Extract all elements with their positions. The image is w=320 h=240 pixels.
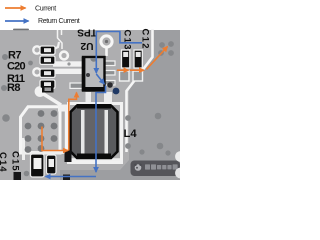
via ring B [60, 52, 68, 60]
via ring A [101, 36, 112, 47]
svg-text:C14: C14 [0, 152, 9, 173]
inductor L4 [69, 104, 122, 163]
svg-text:L4: L4 [124, 128, 138, 140]
pad bottom-left edge [14, 172, 22, 180]
PCB top edge shadow [13, 29, 29, 31]
via ring D [33, 68, 40, 75]
return path diagonal in U2 [96, 74, 104, 84]
legend background [0, 0, 180, 30]
svg-text:Return Current: Return Current [38, 18, 80, 25]
small part above island [42, 86, 54, 93]
svg-text:C13: C13 [123, 30, 134, 51]
resistor pads R8 [40, 80, 55, 88]
svg-text:C20: C20 [7, 61, 25, 73]
small part right of C15 [65, 151, 72, 163]
resistor pads R11 [40, 69, 55, 77]
white traces pads to U2 [53, 61, 83, 66]
white outline under L4 [70, 158, 121, 161]
PCB background [0, 30, 180, 180]
scattered vias [1, 41, 174, 176]
svg-text:R8: R8 [7, 82, 20, 94]
cap bottom pad outlines right [120, 71, 130, 81]
current path left: C15 to U2 [42, 127, 68, 151]
white trace bottom-left caps [24, 151, 70, 154]
island via grid [25, 110, 58, 153]
watermark [131, 151, 186, 178]
capacitor C13 body [122, 50, 130, 68]
svg-text:U2: U2 [80, 40, 93, 51]
return path bottom to C15 [46, 176, 97, 178]
dark vias under IC [107, 82, 113, 88]
capacitor C12 body [134, 50, 142, 68]
regulator IC U2 body [82, 57, 106, 92]
copper island bottom-left [21, 107, 61, 153]
capacitor C15 body [31, 154, 45, 177]
legend return current arrow [5, 20, 29, 22]
via ring C [33, 46, 40, 53]
IC pad left lower [70, 83, 84, 88]
capacitor pads C20 [40, 56, 55, 64]
svg-text:Current: Current [35, 5, 56, 12]
return path: C12 to U2 [96, 32, 142, 74]
capacitor C14 body [47, 155, 57, 174]
white trace stubs top [58, 30, 63, 49]
current path right: U2 to output [117, 69, 129, 71]
ground plane right [60, 30, 180, 180]
pad bottom center edge [63, 175, 70, 181]
white pad circle left of island [35, 86, 46, 97]
return path down through L4 [96, 86, 106, 173]
svg-text:C15: C15 [11, 151, 22, 172]
white trace below IC [86, 92, 92, 104]
resistor pads R7 [40, 46, 55, 54]
legend current arrow [5, 7, 26, 9]
svg-text:TPS: TPS [77, 26, 97, 37]
trace channel island right [65, 106, 67, 156]
IC pads right [104, 61, 115, 85]
svg-text:C12: C12 [141, 29, 152, 50]
plane boundary white [127, 29, 153, 152]
